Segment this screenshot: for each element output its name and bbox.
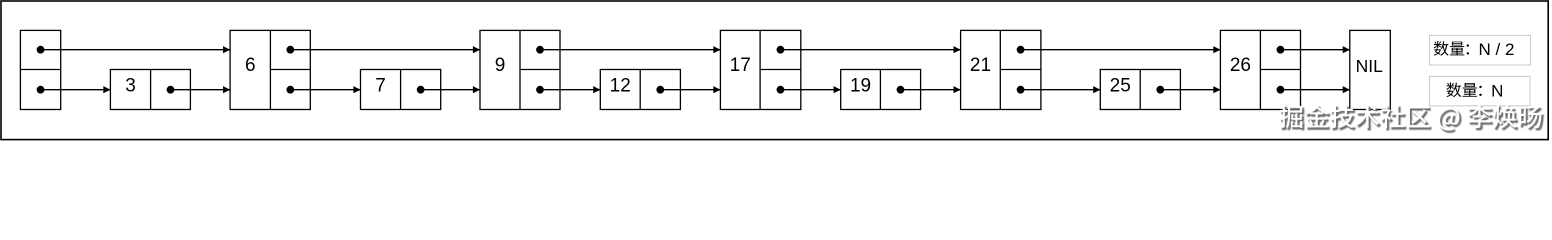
node 12 box [600,70,680,110]
wire node 9 level-2 → node 17 [540,49,720,51]
head level-2 pointer dot [37,46,45,54]
wire node 12 level-1 → node 17 [660,89,720,91]
node 3 pointer dot [167,86,175,94]
svg-text:25: 25 [1110,75,1131,96]
wire node 6 level-1 → node 7 [290,89,360,91]
node 26 level-2 pointer dot [1277,46,1285,54]
wire node 21 level-1 → node 25 [1021,89,1101,91]
wire node 17 level-1 → node 19 [780,89,840,91]
legend box: level-2 count [1430,35,1531,65]
node 17 level-1 pointer dot [777,86,785,94]
legend box: level-1 count [1430,76,1531,106]
wire node 7 level-1 → node 9 [421,89,480,91]
svg-text:NIL: NIL [1356,56,1384,76]
svg-text:17: 17 [730,55,751,76]
node 7 box [361,70,441,110]
node 9 level-1 pointer dot [536,86,544,94]
wire node 19 level-1 → node 21 [901,89,961,91]
svg-text:19: 19 [850,75,871,96]
svg-text:12: 12 [610,75,631,96]
wire node 6 level-2 → node 9 [290,49,480,51]
node 6 box [230,30,310,109]
node 25 box [1100,70,1180,110]
wire node 3 level-1 → node 6 [171,89,231,91]
node 26 level-1 pointer dot [1277,86,1285,94]
wire node 25 level-1 → node 26 [1160,89,1220,91]
legend text 数量: N [1446,81,1503,100]
node 12 pointer dot [656,86,664,94]
svg-text:7: 7 [375,75,386,96]
node 7 pointer dot [417,86,425,94]
node 26 box [1220,30,1300,109]
node 21 level-1 pointer dot [1017,86,1025,94]
legend text 数量: N / 2 [1434,40,1515,59]
node 19 pointer dot [897,86,905,94]
wire node 9 level-1 → node 12 [540,89,600,91]
head level-1 pointer dot [37,86,45,94]
NIL terminator box [1350,30,1391,109]
node 6 level-1 pointer dot [286,86,294,94]
node 9 box [480,30,560,109]
node 21 level-2 pointer dot [1017,46,1025,54]
node 21 box [961,30,1041,109]
svg-text:3: 3 [125,75,136,96]
watermark 掘金技术社区 @ 李焕旸 [1280,105,1544,133]
svg-text:N / 2: N / 2 [1479,40,1515,59]
wire head level-2 → node 6 [41,49,231,51]
node 19 box [841,70,921,110]
wire node 26 level-2 → NIL [1280,49,1349,51]
wire node 26 level-1 → NIL [1280,89,1349,91]
node 9 level-2 pointer dot [536,46,544,54]
svg-text:6: 6 [245,55,256,76]
node 17 box [720,30,800,109]
node 6 level-2 pointer dot [286,46,294,54]
svg-text:26: 26 [1230,55,1251,76]
node 25 pointer dot [1156,86,1164,94]
head node (two-level header) [20,30,60,109]
node 17 level-2 pointer dot [777,46,785,54]
wire node 17 level-2 → node 21 [780,49,960,51]
svg-text:21: 21 [970,55,991,76]
svg-text:N: N [1491,81,1503,100]
wire node 21 level-2 → node 26 [1021,49,1221,51]
node 3 box [110,70,190,110]
svg-text:9: 9 [495,55,506,76]
wire head level-1 → node 3 [41,89,111,91]
